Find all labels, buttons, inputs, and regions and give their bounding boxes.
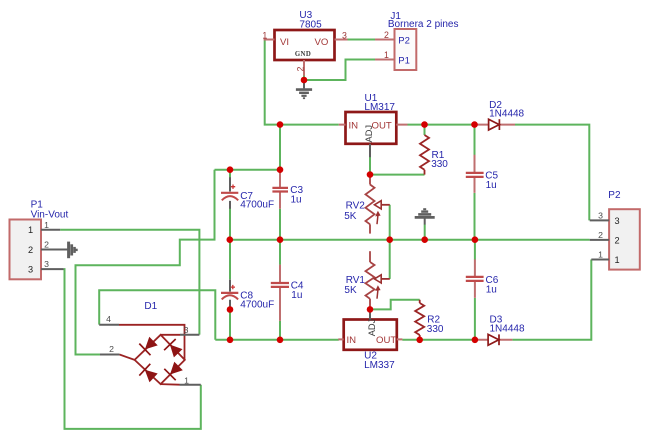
wire C3 bottom bbox=[279, 209, 281, 240]
svg-text:2: 2 bbox=[109, 344, 114, 354]
svg-text:7805: 7805 bbox=[299, 19, 322, 30]
junction at R1 top bbox=[421, 121, 428, 128]
wire D3 cathode to P2 pin 1 bbox=[512, 260, 591, 340]
capacitor C4 bbox=[271, 265, 289, 321]
svg-text:LM337: LM337 bbox=[364, 360, 395, 371]
wire RV2 wiper to rail bbox=[389, 205, 391, 240]
svg-text:3: 3 bbox=[342, 31, 347, 41]
svg-text:1u: 1u bbox=[486, 284, 497, 295]
wire C7 top bbox=[229, 170, 231, 178]
junction at RV wipers bbox=[386, 236, 393, 243]
potentiometer RV1 bbox=[366, 251, 390, 309]
wire C4 bottom bbox=[279, 321, 281, 340]
wire bottom negative rail bbox=[215, 339, 338, 341]
svg-text:P1: P1 bbox=[398, 56, 410, 67]
junction at U1 ADJ bbox=[367, 171, 374, 178]
wire RV1 wiper to rail bbox=[389, 240, 391, 279]
connector P1 Vin-Vout bbox=[10, 220, 69, 280]
connector J1 Bornera 2 pines bbox=[375, 29, 416, 70]
diode D3 1N4448 bbox=[475, 334, 513, 345]
ground on mid rail (pointing up) bbox=[415, 209, 435, 224]
wire C4 top bbox=[279, 240, 281, 265]
svg-text:3: 3 bbox=[28, 265, 33, 275]
wire U3 GND pin to junction bbox=[303, 76, 305, 81]
svg-text:RV2: RV2 bbox=[346, 201, 366, 212]
wire D2 cathode to P2 pin 3 bbox=[515, 125, 589, 221]
capacitor C6 bbox=[466, 259, 484, 298]
svg-text:330: 330 bbox=[431, 159, 448, 170]
wire R1 top bbox=[424, 125, 426, 135]
svg-text:OUT: OUT bbox=[372, 121, 392, 132]
svg-text:ADJ: ADJ bbox=[367, 319, 377, 336]
IC U1 LM317 bbox=[339, 112, 408, 157]
wire VCC drop to top filter rail bbox=[279, 125, 281, 170]
svg-text:1: 1 bbox=[262, 31, 267, 41]
junction at R2 bottom bbox=[416, 337, 423, 344]
capacitor C7 (polarized) bbox=[221, 177, 238, 209]
svg-text:1u: 1u bbox=[486, 180, 497, 191]
capacitor C5 bbox=[466, 155, 484, 193]
junction at C5 bottom C6 top bbox=[472, 236, 479, 243]
svg-text:2: 2 bbox=[614, 235, 619, 245]
wire U1 OUT rail bbox=[408, 124, 475, 126]
svg-text:OUT: OUT bbox=[376, 335, 396, 346]
svg-text:D1: D1 bbox=[144, 301, 157, 312]
svg-text:P2: P2 bbox=[398, 36, 410, 47]
wire C7 bottom bbox=[229, 209, 231, 240]
svg-text:2: 2 bbox=[384, 30, 389, 40]
junction at C7 top bbox=[227, 166, 234, 173]
junction at C3 bottom bbox=[277, 236, 284, 243]
svg-text:5K: 5K bbox=[344, 285, 357, 296]
svg-text:3: 3 bbox=[184, 325, 189, 335]
wire mid output rail bbox=[230, 239, 590, 241]
svg-text:LM317: LM317 bbox=[364, 102, 395, 113]
svg-text:1: 1 bbox=[184, 376, 189, 386]
svg-text:1: 1 bbox=[28, 225, 33, 235]
svg-text:4: 4 bbox=[106, 314, 111, 324]
svg-text:3: 3 bbox=[614, 216, 619, 226]
ground at P1 pin 2 (pointing right) bbox=[69, 242, 77, 259]
capacitor C3 bbox=[272, 171, 288, 209]
svg-text:1u: 1u bbox=[291, 194, 302, 205]
svg-text:330: 330 bbox=[427, 324, 444, 335]
svg-text:GND: GND bbox=[295, 51, 311, 58]
svg-text:4700uF: 4700uF bbox=[240, 199, 274, 210]
svg-text:Bornera 2 pines: Bornera 2 pines bbox=[388, 19, 459, 30]
svg-text:1: 1 bbox=[384, 50, 389, 60]
junction at ground mid rail bbox=[421, 236, 428, 243]
junction at U2 ADJ bbox=[367, 306, 374, 313]
potentiometer RV2 bbox=[366, 175, 390, 234]
svg-text:1N4448: 1N4448 bbox=[489, 109, 524, 120]
junction at C3 top bbox=[277, 166, 284, 173]
wire C6 bottom bbox=[474, 298, 476, 340]
svg-text:ADJ: ADJ bbox=[364, 125, 374, 143]
IC U3 7805 bbox=[264, 30, 348, 76]
wire C8 top bbox=[229, 240, 231, 280]
svg-text:1: 1 bbox=[614, 255, 619, 265]
junction at C8 bottom rail bbox=[227, 337, 234, 344]
wire U2 OUT rail bbox=[402, 339, 475, 341]
wire C8 bottom bbox=[229, 310, 231, 340]
resistor R2 bbox=[415, 300, 424, 340]
resistor R1 bbox=[420, 135, 429, 175]
wire C5 bottom bbox=[474, 193, 476, 240]
svg-text:2: 2 bbox=[44, 240, 49, 250]
svg-text:VI: VI bbox=[280, 37, 289, 48]
ground below U3 bbox=[296, 80, 312, 98]
junction at C5 top bbox=[471, 121, 478, 128]
svg-text:1N4448: 1N4448 bbox=[490, 323, 525, 334]
svg-text:1: 1 bbox=[44, 220, 49, 230]
svg-text:IN: IN bbox=[347, 335, 357, 346]
junction at C8 lower pin bbox=[227, 306, 234, 313]
junction at U1 IN drop bbox=[277, 121, 284, 128]
IC U2 LM337 bbox=[338, 309, 402, 349]
junction at U3 GND bbox=[301, 77, 308, 84]
svg-text:3: 3 bbox=[598, 210, 603, 220]
wire C5 top bbox=[474, 125, 476, 155]
wire ground to mid rail bbox=[424, 225, 426, 240]
svg-text:2: 2 bbox=[296, 67, 306, 72]
svg-text:IN: IN bbox=[349, 121, 359, 132]
svg-text:1u: 1u bbox=[291, 290, 302, 301]
svg-text:2: 2 bbox=[28, 245, 33, 255]
svg-text:1: 1 bbox=[598, 249, 603, 259]
wire U3 VI to U1 IN bbox=[265, 41, 339, 125]
wire U1 ADJ net bbox=[370, 157, 425, 175]
wire P1 pin 1 to D1 pin 3 bbox=[60, 230, 199, 335]
svg-text:4700uF: 4700uF bbox=[240, 300, 274, 311]
junction at C6 bottom bbox=[472, 337, 479, 344]
svg-text:VO: VO bbox=[315, 37, 329, 48]
capacitor C8 (polarized) bbox=[221, 280, 238, 310]
junction at C4 bottom rail bbox=[277, 337, 284, 344]
wire D1 pin 4 to negative rail bbox=[99, 290, 215, 340]
wire J1 P1 to GND junction bbox=[304, 60, 375, 81]
wire C6 top bbox=[474, 240, 476, 260]
junction at C7 bottom bbox=[227, 236, 234, 243]
connector P2 bbox=[590, 209, 640, 269]
wire top filter rail bbox=[215, 169, 281, 171]
svg-text:Vin-Vout: Vin-Vout bbox=[31, 209, 69, 220]
diode D2 1N4448 bbox=[475, 119, 516, 130]
bridge rectifier D1 bbox=[99, 325, 201, 385]
wire U3 VO to J1 P2 bbox=[348, 39, 376, 41]
wire P1 pin 3 to D1 pin 1 bbox=[64, 269, 201, 429]
svg-text:5K: 5K bbox=[344, 211, 357, 222]
wire U2 ADJ to R2 bbox=[370, 300, 420, 310]
svg-text:P2: P2 bbox=[608, 190, 621, 201]
svg-text:2: 2 bbox=[598, 230, 603, 240]
svg-text:3: 3 bbox=[44, 259, 49, 269]
wire top rail to D1 pin 2 bbox=[76, 170, 215, 355]
